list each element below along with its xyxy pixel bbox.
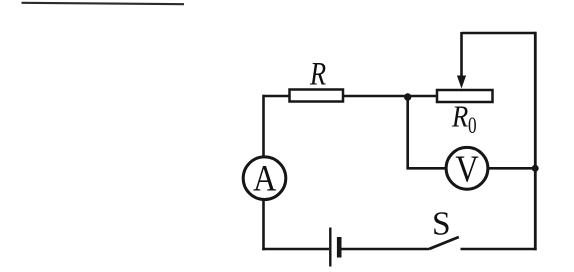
wire left vertical upper (corner to ammeter) (262, 95, 265, 157)
wire resistor R to rheostat R0 (343, 95, 438, 98)
svg-text:V: V (455, 148, 479, 190)
wire switch to bottom right corner (461, 248, 537, 251)
wire left vertical lower (ammeter to bottom) (262, 199, 265, 250)
svg-text:S: S (432, 206, 451, 243)
wire wiper top horizontal (462, 32, 536, 35)
battery cell (330, 228, 339, 267)
wire voltmeter right lead (488, 167, 536, 170)
label R (309, 56, 326, 92)
node junction after R (404, 93, 411, 100)
svg-text:R: R (451, 100, 469, 134)
rheostat R0 (437, 90, 493, 102)
wire junction down to voltmeter branch (406, 96, 409, 168)
resistor R (290, 90, 344, 102)
wire top-left horizontal (corner to resistor R) (264, 95, 291, 98)
wire right vertical (534, 32, 537, 251)
label S (432, 206, 451, 243)
rheostat wiper arrow (457, 32, 466, 89)
svg-text:A: A (253, 159, 276, 200)
ammeter A (243, 157, 286, 200)
wire battery to switch (342, 248, 430, 251)
wire bottom left (corner to battery) (262, 248, 329, 251)
svg-text:0: 0 (468, 114, 477, 139)
label R0 (451, 100, 477, 139)
blank underline top-left (22, 3, 185, 4)
wire voltmeter left lead (406, 167, 446, 170)
switch S lever (430, 237, 459, 249)
voltmeter V (446, 147, 488, 190)
node voltmeter right junction (532, 165, 539, 172)
svg-text:R: R (309, 56, 326, 92)
